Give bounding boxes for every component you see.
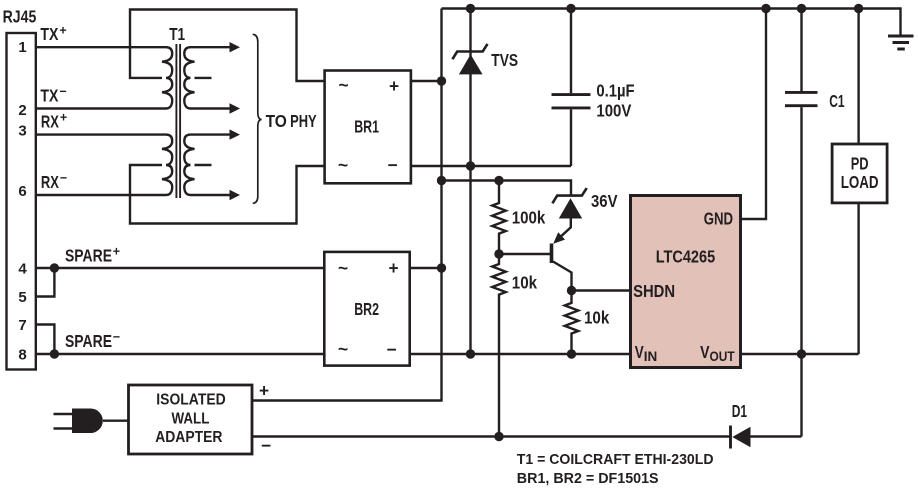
wire VOUT to PD load bottom — [741, 353, 859, 355]
svg-text:RX: RX — [41, 111, 59, 131]
svg-text:−: − — [388, 155, 398, 175]
svg-text:OUT: OUT — [710, 349, 736, 364]
wire pin2 TX- to T1 top winding bottom — [36, 107, 166, 109]
svg-text:D1: D1 — [732, 401, 748, 421]
wire PD load bottom lead — [857, 203, 859, 354]
zener D2 36V bar — [552, 188, 586, 203]
arrowhead to PHY 4 — [230, 190, 241, 200]
T1 primary winding top (TX) — [162, 47, 172, 108]
junction dot C1 at VOUT — [797, 349, 806, 358]
resistor 10k upper-left — [492, 254, 506, 437]
svg-text:~: ~ — [339, 75, 349, 95]
svg-text:SPARE: SPARE — [65, 246, 112, 266]
wire to PHY arrow 2 — [191, 107, 231, 109]
svg-text:TO: TO — [266, 111, 287, 131]
junction dot BR1+ bus — [437, 76, 446, 85]
svg-text:+: + — [389, 76, 399, 96]
junction dot PD load at top rail — [854, 4, 863, 13]
wire Q1 base to divider node — [499, 253, 552, 255]
junction dot BR2+ bus — [437, 263, 446, 272]
brace TO PHY — [253, 34, 262, 203]
svg-text:LTC4265: LTC4265 — [656, 246, 716, 266]
wire top rail to earth ground — [442, 9, 901, 37]
bridge rectifier BR2 body — [324, 252, 409, 366]
junction dot pin7/pin8 — [50, 349, 59, 358]
T1 core — [175, 44, 177, 198]
arrowhead to PHY 1 — [230, 42, 241, 52]
junction dot divider node — [494, 249, 503, 258]
capacitor 0.1uF bottom lead — [570, 109, 572, 166]
svg-text:−: − — [113, 330, 120, 344]
svg-text:100k: 100k — [512, 207, 546, 227]
arrowhead to PHY 2 — [230, 103, 241, 113]
wire wall adapter - output to D1 cathode — [252, 435, 731, 437]
wire to PHY arrow 3 — [191, 133, 231, 135]
zener D2 triangle — [559, 198, 582, 218]
wire pin8 SPARE- to BR2 lower input — [36, 353, 324, 355]
wire pin4 SPARE+ to BR2 upper input — [36, 267, 324, 269]
wire LTC4265 GND to top rail — [741, 9, 767, 220]
svg-text:−: − — [261, 435, 271, 455]
wire to PHY arrow 4 — [191, 194, 231, 196]
wire D1 anode to C1/VOUT node — [751, 435, 802, 437]
resistor 100k — [492, 181, 506, 255]
svg-text:ADAPTER: ADAPTER — [155, 429, 223, 446]
svg-text:BR2: BR2 — [354, 299, 379, 319]
svg-text:BR1: BR1 — [354, 117, 379, 137]
svg-text:3: 3 — [18, 122, 26, 139]
svg-text:C1: C1 — [829, 91, 845, 111]
PD load box — [832, 144, 887, 203]
wire pin1 TX+ to T1 top winding — [36, 46, 166, 48]
svg-text:+: + — [59, 23, 66, 37]
transistor Q1 base bar — [550, 244, 554, 264]
wire +bus vertical down to wall adapter + — [252, 9, 442, 401]
junction dot TVS top rail — [466, 4, 475, 13]
transistor Q1 collector lead — [553, 262, 572, 291]
junction dot GND riser at top rail — [761, 4, 770, 13]
junction dot 10k chain at bottom rail — [494, 432, 503, 441]
svg-text:T1: T1 — [169, 24, 185, 44]
junction dot 180-line at bus — [437, 176, 446, 185]
svg-text:−: − — [60, 171, 67, 185]
svg-text:~: ~ — [338, 339, 348, 359]
svg-text:RX: RX — [41, 172, 59, 192]
wire to PHY arrow 1 — [191, 46, 231, 48]
svg-text:TVS: TVS — [491, 50, 518, 70]
wire pin6 RX- to T1 bottom winding bottom — [36, 194, 166, 196]
junction dot 0.1uF top rail — [566, 4, 575, 13]
svg-text:+: + — [113, 245, 120, 259]
wire T1 top center-tap routed over transformer to BR1 upper input — [130, 10, 325, 82]
wire PD load top lead — [857, 9, 859, 145]
junction dot TVS at BR1- rail — [466, 161, 475, 170]
svg-text:7: 7 — [18, 317, 26, 334]
zener D2 36V leads — [556, 219, 571, 242]
svg-text:PD: PD — [851, 153, 869, 173]
wire T1 bottom center-tap routed under transformer to BR1 lower input — [130, 165, 325, 224]
capacitor C1 bottom lead down to D1 wire — [800, 107, 802, 436]
svg-text:RJ45: RJ45 — [3, 7, 37, 27]
svg-text:+: + — [259, 381, 269, 401]
svg-text:~: ~ — [338, 155, 348, 175]
junction dot C1 at top rail — [797, 4, 806, 13]
T1 secondary winding bottom (PHY side) — [184, 135, 194, 195]
junction dot pin4/pin5 — [50, 263, 59, 272]
capacitor C1 top lead — [800, 9, 802, 92]
svg-text:8: 8 — [18, 346, 26, 363]
junction dot 10k at VIN rail — [567, 349, 576, 358]
T1 secondary winding top (PHY side) — [184, 47, 194, 108]
wire pin5 jog to pin4 node — [36, 268, 54, 297]
wall adapter plug prongs — [54, 414, 74, 429]
IC LTC4265 body — [631, 196, 741, 368]
svg-text:V: V — [635, 342, 644, 362]
svg-text:+: + — [60, 111, 67, 125]
svg-text:+: + — [389, 258, 399, 278]
svg-text:36V: 36V — [591, 191, 618, 211]
resistor 10k lower-right — [565, 291, 579, 355]
diode D1 triangle — [732, 427, 750, 448]
svg-text:5: 5 — [18, 289, 26, 306]
svg-text:T1 = COILCRAFT ETHI-230LD: T1 = COILCRAFT ETHI-230LD — [517, 451, 714, 468]
svg-text:~: ~ — [338, 258, 348, 278]
earth ground bars — [888, 36, 914, 49]
junction dot TVS at VIN rail — [466, 349, 475, 358]
wire BR1 + output to +bus — [411, 80, 442, 82]
svg-text:2: 2 — [18, 102, 26, 119]
wire BR2 + output to +bus — [410, 267, 442, 269]
svg-text:−: − — [59, 85, 66, 99]
stub T1 secondary bottom center-tap — [195, 164, 212, 166]
bridge rectifier BR1 body — [325, 71, 411, 184]
wall adapter plug lead — [103, 420, 129, 422]
capacitor C1 plates — [785, 92, 818, 105]
wire TVS branch vertical — [469, 9, 471, 355]
wire 180-line from +bus to zener top — [442, 181, 572, 196]
svg-text:WALL: WALL — [172, 410, 210, 427]
wall adapter plug body — [72, 409, 103, 434]
capacitor 0.1uF top lead — [570, 9, 572, 94]
svg-text:BR1, BR2 = DF1501S: BR1, BR2 = DF1501S — [517, 470, 659, 487]
svg-text:TX: TX — [40, 24, 58, 44]
wire VIN rail BR2 - output to LTC4265 VIN — [410, 353, 631, 355]
wire BR1 - output rail to 0.1uF bottom — [411, 165, 571, 167]
T1 primary winding bottom (RX) — [162, 135, 172, 195]
TVS symbol triangle — [459, 54, 483, 74]
svg-text:10k: 10k — [584, 307, 610, 327]
diode D1 cathode bar — [729, 426, 732, 449]
svg-text:TX: TX — [40, 85, 58, 105]
stub T1 secondary top center-tap — [195, 77, 212, 79]
junction dot 100k at 180-line — [494, 176, 503, 185]
capacitor 0.1uF plates — [552, 95, 591, 108]
svg-text:1: 1 — [18, 39, 26, 56]
svg-text:6: 6 — [18, 183, 26, 200]
svg-text:SPARE: SPARE — [65, 331, 112, 351]
svg-text:−: − — [387, 340, 397, 360]
svg-text:SHDN: SHDN — [633, 281, 675, 301]
svg-text:ISOLATED: ISOLATED — [156, 391, 225, 408]
RJ45 connector body — [7, 33, 36, 370]
wire SHDN to LTC4265 — [572, 289, 631, 291]
svg-text:PHY: PHY — [290, 111, 317, 131]
svg-text:0.1µF: 0.1µF — [596, 80, 634, 100]
wire pin7 jog to pin8 node — [36, 325, 54, 355]
transistor Q1 emitter arrowhead — [553, 232, 565, 244]
svg-text:100V: 100V — [596, 101, 631, 121]
svg-text:10k: 10k — [512, 273, 538, 293]
svg-text:GND: GND — [704, 208, 733, 228]
isolated wall adapter box — [129, 385, 253, 454]
svg-text:V: V — [700, 342, 710, 362]
svg-text:4: 4 — [18, 261, 27, 278]
junction dot SHDN node — [567, 286, 576, 295]
svg-text:IN: IN — [644, 349, 658, 364]
TVS zener bar — [452, 44, 487, 59]
arrowhead to PHY 3 — [230, 129, 241, 139]
svg-text:LOAD: LOAD — [841, 172, 879, 192]
wire pin3 RX+ to T1 bottom winding top — [36, 133, 166, 135]
